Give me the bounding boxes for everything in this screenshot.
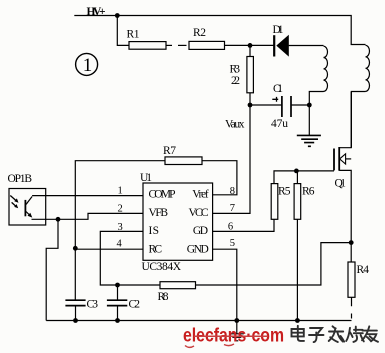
svg-text:R4: R4 — [357, 264, 370, 276]
svg-text:R1: R1 — [127, 29, 140, 41]
svg-text:Vref: Vref — [192, 189, 209, 201]
svg-text:Vaux: Vaux — [225, 119, 245, 131]
svg-text:GD: GD — [193, 225, 208, 237]
svg-text:COMP: COMP — [149, 189, 176, 201]
svg-text:VCC: VCC — [189, 207, 209, 219]
svg-text:R7: R7 — [163, 145, 176, 157]
svg-text:R5: R5 — [278, 186, 291, 198]
svg-text:5: 5 — [230, 238, 235, 249]
svg-text:1: 1 — [118, 186, 123, 197]
svg-text:6: 6 — [228, 222, 233, 233]
svg-text:Q1: Q1 — [335, 178, 347, 190]
svg-text:C1: C1 — [273, 83, 283, 95]
svg-text:R2: R2 — [193, 27, 206, 39]
svg-text:8: 8 — [230, 186, 235, 197]
svg-text:UC384X: UC384X — [142, 261, 182, 273]
svg-text:4: 4 — [117, 239, 123, 250]
svg-text:C3: C3 — [87, 299, 99, 311]
svg-text:OP1B: OP1B — [8, 173, 33, 185]
svg-text:R3: R3 — [230, 64, 241, 76]
svg-text:R6: R6 — [302, 186, 315, 198]
svg-text:7: 7 — [230, 203, 235, 214]
svg-text:1: 1 — [83, 55, 93, 76]
svg-text:D1: D1 — [273, 24, 284, 36]
svg-text:RC: RC — [149, 244, 163, 256]
svg-text:R8: R8 — [158, 291, 169, 303]
svg-text:3: 3 — [118, 222, 123, 233]
svg-text:IS: IS — [149, 225, 160, 237]
svg-text:U1: U1 — [140, 172, 152, 184]
svg-text:VFB: VFB — [149, 207, 169, 219]
svg-text:2: 2 — [118, 203, 123, 214]
svg-text:GND: GND — [187, 244, 209, 256]
svg-text:HV+: HV+ — [87, 6, 106, 18]
svg-text:47u: 47u — [271, 118, 288, 130]
svg-text:22: 22 — [231, 75, 240, 87]
svg-text:C2: C2 — [129, 299, 141, 311]
